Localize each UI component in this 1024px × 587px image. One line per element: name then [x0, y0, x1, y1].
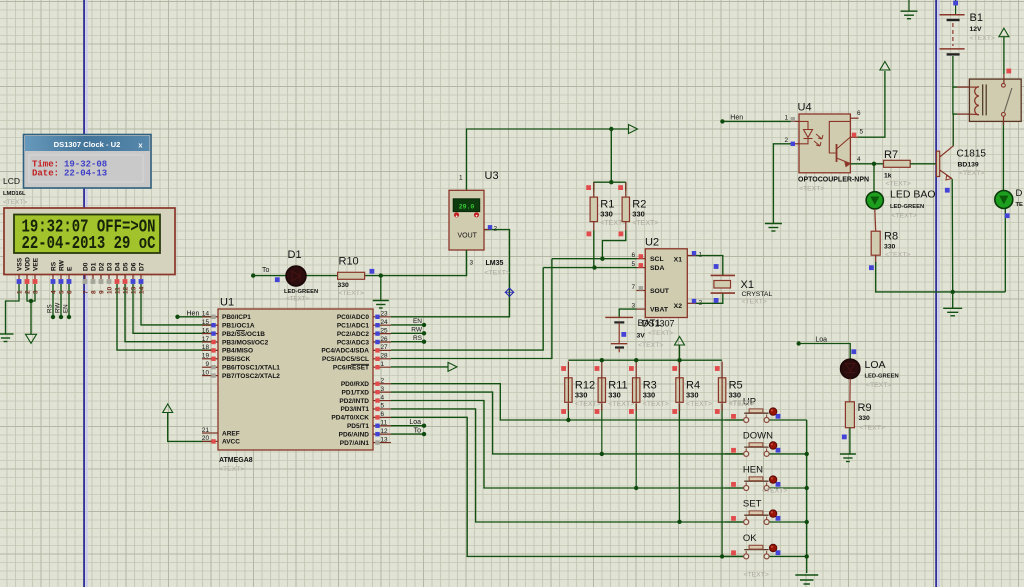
svg-text:<TEXT>: <TEXT>	[762, 488, 787, 495]
svg-text:18: 18	[202, 344, 210, 351]
svg-text:<TEXT>: <TEXT>	[638, 342, 663, 349]
svg-text:PD5/T1: PD5/T1	[347, 423, 369, 430]
svg-text:OPTOCOUPLER-NPN: OPTOCOUPLER-NPN	[798, 177, 869, 184]
svg-text:Hen: Hen	[730, 115, 743, 122]
svg-text:6: 6	[381, 411, 385, 418]
svg-text:PD4/T0/XCK: PD4/T0/XCK	[331, 415, 369, 422]
svg-text:22-04-2013 29 oC: 22-04-2013 29 oC	[22, 232, 156, 253]
svg-text:VEE: VEE	[33, 257, 40, 271]
svg-text:X1: X1	[741, 279, 754, 291]
svg-text:1: 1	[784, 115, 788, 122]
svg-text:PB7/TOSC2/XTAL2: PB7/TOSC2/XTAL2	[222, 373, 280, 380]
svg-text:<TEXT>: <TEXT>	[799, 186, 824, 193]
svg-text:12: 12	[123, 286, 130, 294]
svg-text:<TEXT>: <TEXT>	[575, 401, 601, 408]
svg-text:<TEXT>: <TEXT>	[866, 382, 891, 389]
svg-text:X1: X1	[674, 257, 683, 264]
svg-text:D3: D3	[107, 262, 114, 271]
svg-text:R9: R9	[858, 402, 872, 414]
svg-text:<TEXT>: <TEXT>	[892, 213, 917, 220]
svg-text:VDD: VDD	[25, 257, 32, 271]
svg-text:C1815: C1815	[957, 149, 987, 160]
svg-text:<TEXT>: <TEXT>	[686, 401, 712, 408]
svg-text:OK: OK	[743, 533, 757, 544]
svg-text:20: 20	[202, 435, 210, 442]
svg-text:D0: D0	[83, 262, 90, 271]
svg-text:R10: R10	[339, 256, 359, 268]
svg-text:<TEXT>: <TEXT>	[608, 401, 634, 408]
svg-text:TE: TE	[1016, 202, 1024, 208]
svg-text:23: 23	[381, 311, 389, 318]
svg-text:<TEXT>: <TEXT>	[286, 296, 309, 303]
svg-text:330: 330	[859, 415, 871, 422]
svg-text:LED BAO: LED BAO	[890, 189, 936, 201]
svg-text:<TEXT>: <TEXT>	[219, 466, 244, 473]
svg-text:9: 9	[99, 290, 106, 294]
svg-text:PB3/MOSI/OC2: PB3/MOSI/OC2	[222, 339, 269, 346]
svg-text:21: 21	[202, 427, 210, 434]
svg-text:AVCC: AVCC	[222, 439, 240, 446]
svg-text:LMD16L: LMD16L	[3, 191, 26, 197]
svg-text:Date:: Date:	[32, 169, 59, 179]
svg-text:15: 15	[202, 319, 210, 326]
svg-text:4: 4	[381, 394, 385, 401]
svg-text:R8: R8	[884, 231, 898, 243]
svg-text:10: 10	[107, 286, 114, 294]
svg-text:PC4/ADC4/SDA: PC4/ADC4/SDA	[321, 348, 369, 355]
svg-text:LM35: LM35	[486, 260, 504, 267]
svg-text:PB0/ICP1: PB0/ICP1	[222, 314, 251, 321]
svg-text:SET: SET	[743, 499, 762, 510]
svg-text:PC2/ADC2: PC2/ADC2	[337, 331, 370, 338]
svg-text:▼: ▼	[475, 214, 478, 218]
svg-text:1: 1	[381, 361, 385, 368]
svg-text:PD0/RXD: PD0/RXD	[341, 381, 369, 388]
svg-text:RS: RS	[413, 335, 423, 342]
svg-text:3: 3	[470, 260, 474, 267]
svg-text:PB6/TOSC1/XTAL1: PB6/TOSC1/XTAL1	[222, 365, 280, 372]
svg-text:PB4/MISO: PB4/MISO	[222, 348, 253, 355]
svg-text:PB1/OC1A: PB1/OC1A	[222, 323, 255, 330]
svg-text:BD139: BD139	[958, 162, 979, 169]
svg-text:10: 10	[202, 369, 210, 376]
svg-text:LED-GREEN: LED-GREEN	[284, 289, 318, 295]
svg-text:ATMEGA8: ATMEGA8	[219, 457, 253, 464]
svg-text:PC0/ADC0: PC0/ADC0	[337, 314, 370, 321]
svg-text:EN: EN	[63, 304, 70, 313]
svg-text:To: To	[414, 428, 422, 435]
svg-text:U4: U4	[798, 102, 812, 114]
svg-text:U1: U1	[220, 297, 234, 309]
svg-text:1: 1	[459, 175, 463, 182]
svg-text:330: 330	[575, 390, 588, 399]
svg-text:SCL: SCL	[650, 256, 664, 263]
svg-text:<TEXT>: <TEXT>	[860, 425, 885, 432]
svg-text:5: 5	[860, 129, 864, 136]
svg-text:To: To	[262, 267, 270, 274]
svg-text:DOWN: DOWN	[743, 430, 773, 441]
svg-text:7: 7	[83, 290, 90, 294]
svg-text:28: 28	[381, 353, 389, 360]
svg-text:U2: U2	[645, 237, 659, 249]
svg-text:HEN: HEN	[743, 465, 763, 476]
svg-text:RW: RW	[411, 327, 423, 334]
svg-text:LCD: LCD	[3, 176, 20, 186]
svg-text:5: 5	[631, 261, 635, 268]
svg-text:DS1307 Clock - U2: DS1307 Clock - U2	[54, 140, 121, 149]
svg-text:U3: U3	[485, 170, 499, 182]
svg-text:PD6/AIND: PD6/AIND	[339, 431, 370, 438]
svg-text:<TEXT>: <TEXT>	[970, 35, 995, 42]
svg-text:2: 2	[381, 378, 385, 385]
svg-text:3: 3	[33, 290, 40, 294]
svg-text:PD7/AIN1: PD7/AIN1	[340, 440, 370, 447]
svg-text:330: 330	[884, 244, 896, 251]
svg-text:16: 16	[202, 327, 210, 334]
svg-text:330: 330	[608, 390, 621, 399]
svg-text:330: 330	[338, 282, 350, 289]
svg-text:D: D	[1016, 188, 1023, 199]
svg-text:5: 5	[59, 290, 66, 294]
svg-text:SOUT: SOUT	[650, 288, 670, 295]
svg-text:LED-GREEN: LED-GREEN	[865, 374, 899, 380]
svg-text:R7: R7	[884, 149, 898, 161]
svg-text:5: 5	[381, 403, 385, 410]
svg-text:E: E	[67, 266, 74, 271]
svg-text:12: 12	[381, 428, 389, 435]
svg-text:LOA: LOA	[865, 359, 886, 371]
svg-text:D1: D1	[91, 262, 98, 271]
svg-text:CRYSTAL: CRYSTAL	[742, 291, 773, 298]
svg-text:<TEXT>: <TEXT>	[886, 181, 911, 188]
svg-text:VBAT: VBAT	[650, 307, 669, 314]
svg-text:4: 4	[51, 290, 58, 294]
svg-text:14: 14	[139, 286, 146, 294]
svg-text:D4: D4	[115, 262, 122, 271]
svg-text:D5: D5	[123, 262, 130, 271]
svg-text:PB2/SS/OC1B: PB2/SS/OC1B	[222, 331, 265, 338]
svg-text:RS: RS	[51, 261, 58, 271]
svg-text:6: 6	[67, 290, 74, 294]
svg-text:330: 330	[686, 390, 699, 399]
svg-text:330: 330	[632, 210, 645, 219]
svg-text:3V: 3V	[637, 333, 646, 340]
svg-text:VSS: VSS	[17, 257, 24, 271]
svg-text:VOUT: VOUT	[458, 233, 478, 240]
svg-text:<TEXT>: <TEXT>	[339, 290, 364, 297]
svg-text:330: 330	[729, 390, 742, 399]
svg-text:EN: EN	[413, 318, 422, 325]
svg-text:25: 25	[381, 327, 389, 334]
svg-text:17: 17	[202, 336, 210, 343]
svg-text:X2: X2	[674, 303, 683, 310]
svg-text:13: 13	[131, 286, 138, 294]
svg-text:19: 19	[202, 353, 210, 360]
svg-text:<TEXT>: <TEXT>	[885, 252, 910, 259]
svg-text:<TEXT>: <TEXT>	[632, 220, 658, 227]
svg-text:<TEXT>: <TEXT>	[729, 400, 754, 407]
svg-text:PD1/TXD: PD1/TXD	[342, 389, 370, 396]
svg-text:1: 1	[17, 290, 24, 294]
svg-text:14: 14	[202, 311, 210, 318]
svg-text:D1: D1	[288, 249, 302, 261]
svg-text:9: 9	[205, 361, 209, 368]
svg-text:▲: ▲	[455, 214, 458, 218]
svg-text:PC5/ADC5/SCL: PC5/ADC5/SCL	[322, 356, 369, 363]
svg-text:24: 24	[381, 319, 389, 326]
svg-text:PC1/ADC1: PC1/ADC1	[337, 323, 370, 330]
svg-text:29.0: 29.0	[459, 204, 475, 211]
svg-text:<TEXT>: <TEXT>	[485, 270, 510, 277]
svg-text:PC6/RESET: PC6/RESET	[333, 365, 369, 372]
svg-text:6: 6	[857, 110, 861, 117]
svg-text:D6: D6	[131, 262, 138, 271]
svg-text:<TEXT>: <TEXT>	[3, 199, 27, 206]
svg-text:RW: RW	[55, 303, 62, 313]
svg-text:D2: D2	[99, 262, 106, 271]
svg-text:RS: RS	[47, 304, 54, 313]
svg-text:DS1307: DS1307	[642, 319, 675, 329]
svg-text:LED-GREEN: LED-GREEN	[890, 204, 924, 210]
svg-text:<TEXT>: <TEXT>	[959, 170, 984, 177]
svg-text:26: 26	[381, 336, 389, 343]
svg-text:7: 7	[631, 284, 635, 291]
svg-text:11: 11	[115, 287, 122, 294]
svg-text:8: 8	[91, 290, 98, 294]
svg-text:13: 13	[381, 436, 389, 443]
svg-text:330: 330	[643, 390, 656, 399]
svg-text:D7: D7	[139, 262, 146, 271]
svg-text:6: 6	[631, 252, 635, 259]
svg-text:<TEXT>: <TEXT>	[742, 299, 767, 306]
svg-text:RW: RW	[59, 259, 66, 271]
svg-text:2: 2	[784, 137, 788, 144]
svg-text:2: 2	[25, 290, 32, 294]
svg-text:2: 2	[494, 226, 498, 233]
svg-text:11: 11	[381, 420, 388, 427]
svg-text:330: 330	[600, 210, 613, 219]
svg-text:<TEXT>: <TEXT>	[648, 330, 673, 337]
svg-text:B1: B1	[970, 12, 983, 24]
svg-text:4: 4	[857, 156, 861, 163]
svg-text:<TEXT>: <TEXT>	[744, 572, 769, 579]
svg-text:PC3/ADC3: PC3/ADC3	[337, 339, 370, 346]
svg-text:<TEXT>: <TEXT>	[643, 401, 669, 408]
svg-text:12V: 12V	[970, 26, 983, 33]
svg-text:Loa: Loa	[409, 419, 421, 426]
svg-text:PB5/SCK: PB5/SCK	[222, 356, 250, 363]
svg-text:3: 3	[381, 386, 385, 393]
svg-text:22-04-13: 22-04-13	[64, 169, 107, 179]
svg-text:AREF: AREF	[222, 430, 240, 437]
svg-text:1k: 1k	[884, 173, 892, 180]
svg-text:PD2/INTD: PD2/INTD	[339, 398, 369, 405]
svg-text:Loa: Loa	[815, 337, 827, 344]
svg-text:SDA: SDA	[650, 265, 664, 272]
svg-text:27: 27	[381, 344, 389, 351]
svg-text:PD3/INT1: PD3/INT1	[340, 406, 369, 413]
